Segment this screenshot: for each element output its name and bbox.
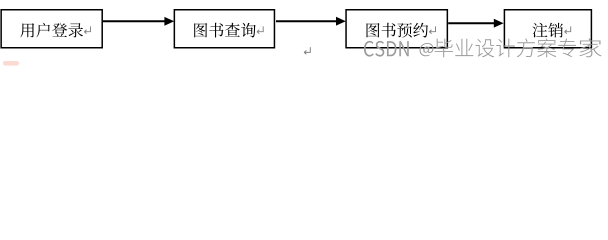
soft-return pilcrow mark in box B3 — [429, 26, 435, 33]
box B4 label text 注销 — [533, 23, 564, 38]
flowchart box B1: 用户登录 — [1, 10, 102, 48]
flowchart box B2: 图书查询 — [174, 10, 274, 48]
box B2 label text 图书查询 — [194, 23, 256, 38]
connector arrow A2 (wire) — [276, 17, 346, 26]
CSDN watermark: @ sign — [420, 43, 434, 56]
CSDN watermark: CSDN letters — [364, 41, 409, 57]
stray paragraph return mark between B2 and B3 — [304, 47, 310, 54]
soft-return pilcrow mark in box B2 — [257, 26, 263, 33]
box B3 label text 图书预约 — [367, 23, 429, 38]
flowchart box B4: 注销 — [504, 10, 591, 48]
CSDN watermark dash logo (only in final APNG frame; omitted faint hint) — [3, 61, 19, 66]
CSDN watermark: 家 (wide) — [579, 38, 601, 57]
flowchart box B3: 图书预约 — [346, 10, 447, 48]
CSDN watermark: 毕业设计方案专 — [435, 38, 576, 57]
connector arrow A1 (wire) — [103, 17, 174, 26]
connector arrow A3 (wire) — [448, 19, 503, 28]
soft-return pilcrow mark in box B1 — [84, 26, 90, 33]
soft-return pilcrow mark in box B4 — [565, 26, 571, 33]
box B1 label text 用户登录 — [20, 23, 83, 38]
